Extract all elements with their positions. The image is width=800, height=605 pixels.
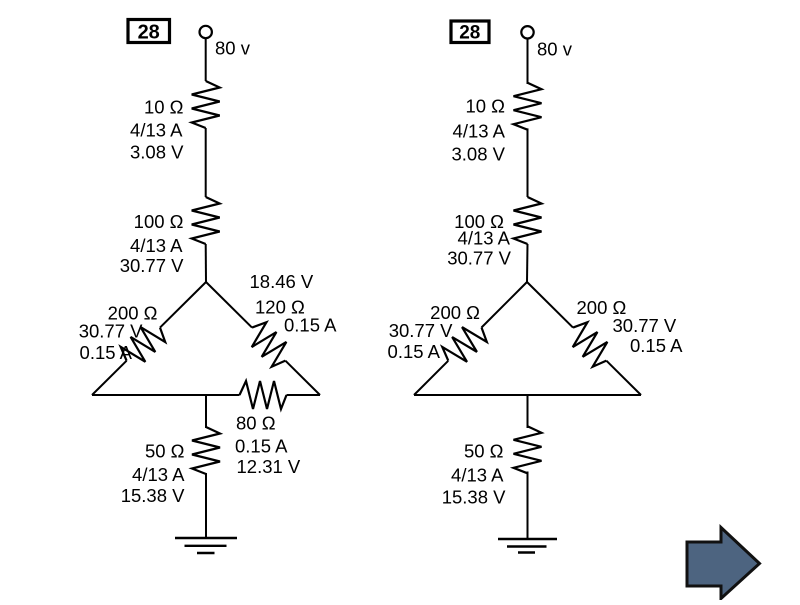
- source terminal circle (right): [521, 26, 533, 38]
- svg-text:10 Ω: 10 Ω: [465, 96, 505, 117]
- wire terminal to R 10Ω (right): [527, 39, 529, 84]
- svg-text:4/13 A: 4/13 A: [458, 228, 511, 249]
- delta left leg (right circuit): wire lower segment: [414, 361, 448, 395]
- svg-text:18.46 V: 18.46 V: [250, 271, 314, 292]
- delta right leg (left circuit): resistor 120Ω: [242, 318, 295, 371]
- svg-text:4/13 A: 4/13 A: [130, 120, 183, 141]
- wire delta bottom to R 50Ω (right): [527, 395, 529, 428]
- svg-text:30.77 V: 30.77 V: [79, 321, 143, 342]
- svg-text:30.77 V: 30.77 V: [613, 315, 677, 336]
- resistor 10Ω (left): [192, 81, 220, 128]
- delta right leg (right circuit): wire upper segment: [527, 282, 573, 328]
- svg-text:50 Ω: 50 Ω: [464, 441, 504, 462]
- svg-text:0.15 A: 0.15 A: [235, 436, 288, 457]
- source terminal circle (left): [200, 26, 212, 38]
- delta left leg (right circuit): resistor 200Ω: [438, 318, 491, 371]
- svg-text:0.15 A: 0.15 A: [80, 342, 133, 363]
- svg-text:28: 28: [459, 23, 480, 44]
- ground symbol (right): [498, 539, 557, 553]
- svg-text:4/13 A: 4/13 A: [132, 464, 185, 485]
- svg-text:80 Ω: 80 Ω: [236, 413, 276, 434]
- navigation arrow button (bottom right): [687, 528, 760, 599]
- delta right leg (right circuit): resistor 200Ω: [563, 318, 616, 371]
- wire delta bottom to R 50Ω (left): [205, 395, 207, 428]
- svg-text:30.77 V: 30.77 V: [447, 248, 511, 269]
- delta right leg (left circuit): wire upper segment: [206, 282, 252, 328]
- svg-text:15.38 V: 15.38 V: [121, 485, 185, 506]
- svg-text:0.15 A: 0.15 A: [284, 315, 337, 336]
- svg-text:3.08 V: 3.08 V: [130, 142, 184, 163]
- svg-text:80 v: 80 v: [215, 38, 251, 59]
- delta right leg (left circuit): wire lower segment: [285, 361, 320, 395]
- delta bottom wire (right circuit): [414, 394, 641, 396]
- ground symbol (left): [175, 538, 237, 553]
- delta left leg (left circuit): resistor 200Ω: [117, 318, 170, 371]
- svg-text:100 Ω: 100 Ω: [134, 211, 184, 232]
- svg-text:4/13 A: 4/13 A: [451, 465, 504, 486]
- problem number box 28 (left): [128, 20, 170, 44]
- svg-text:4/13 A: 4/13 A: [453, 121, 506, 142]
- svg-text:10 Ω: 10 Ω: [144, 97, 184, 118]
- wire R 50Ω to ground (left): [205, 473, 207, 538]
- resistor 100Ω (left): [192, 197, 220, 244]
- delta left leg (left circuit): wire upper segment: [160, 282, 206, 328]
- svg-text:0.15 A: 0.15 A: [388, 341, 441, 362]
- delta left leg (left circuit): wire lower segment: [92, 361, 127, 395]
- delta bottom wire right part (left circuit): [287, 394, 321, 396]
- svg-text:28: 28: [138, 22, 160, 44]
- wire R 100Ω to delta apex node (right): [526, 244, 529, 282]
- svg-text:15.38 V: 15.38 V: [442, 487, 506, 508]
- resistor 50Ω (right): [514, 426, 542, 473]
- wire R 100Ω to delta apex node (left): [205, 244, 207, 282]
- resistor 50Ω (left): [192, 427, 220, 474]
- svg-text:30.77 V: 30.77 V: [389, 320, 453, 341]
- svg-text:80 v: 80 v: [537, 39, 573, 60]
- wire R 10Ω to R 100Ω (right): [527, 128, 529, 197]
- resistor 10Ω (right): [514, 83, 542, 130]
- delta right leg (right circuit): wire lower segment: [606, 361, 641, 395]
- delta bottom wire left part (left circuit): [92, 394, 240, 396]
- wire R 50Ω to ground (right): [527, 472, 529, 540]
- resistor 80Ω delta bottom (left circuit): [240, 381, 287, 409]
- svg-text:12.31 V: 12.31 V: [237, 456, 301, 477]
- svg-text:50 Ω: 50 Ω: [145, 441, 185, 462]
- problem number box 28 (right): [451, 21, 489, 44]
- wire terminal to R 10Ω (left): [205, 38, 207, 81]
- delta left leg (right circuit): wire upper segment: [482, 282, 528, 328]
- wire R 10Ω to R 100Ω (left): [205, 128, 207, 197]
- svg-text:0.15 A: 0.15 A: [630, 335, 683, 356]
- svg-text:30.77 V: 30.77 V: [120, 255, 184, 276]
- svg-text:4/13 A: 4/13 A: [130, 235, 183, 256]
- resistor 100Ω (right): [514, 197, 542, 244]
- svg-text:3.08 V: 3.08 V: [452, 144, 506, 165]
